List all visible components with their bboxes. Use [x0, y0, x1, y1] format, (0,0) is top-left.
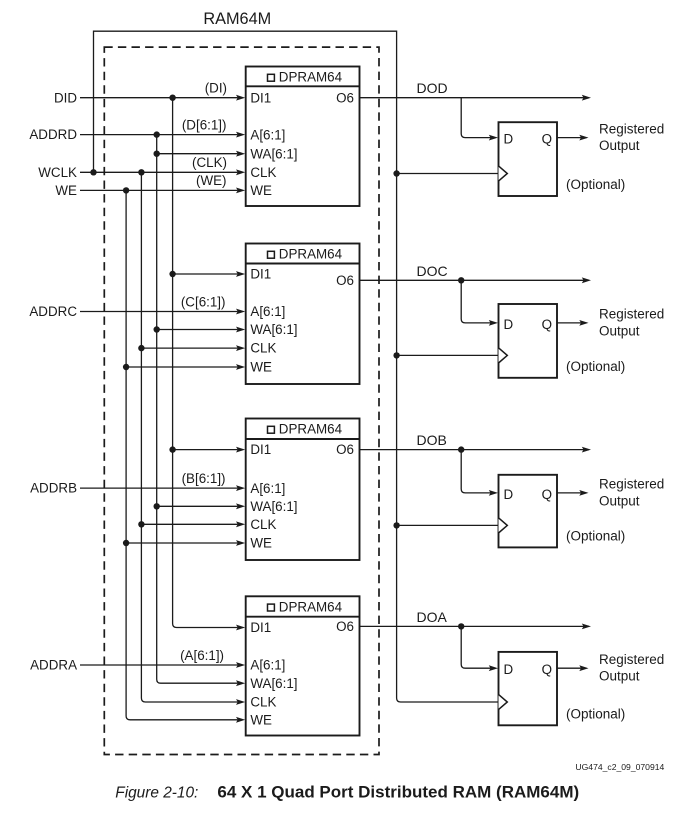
svg-text:CLK: CLK	[250, 695, 276, 710]
wire DOD output net	[360, 97, 590, 99]
wire WE branch to block3 WE	[123, 540, 129, 546]
wire FF2 Q output	[557, 322, 587, 324]
RAM64M dashed boundary box	[104, 47, 379, 754]
svg-text:DID: DID	[54, 90, 77, 105]
svg-text:DOB: DOB	[417, 432, 447, 448]
svg-text:DOD: DOD	[417, 80, 448, 96]
svg-text:UG474_c2_09_070914: UG474_c2_09_070914	[575, 762, 664, 772]
svg-text:A[6:1]: A[6:1]	[250, 304, 285, 319]
svg-text:Q: Q	[542, 662, 552, 677]
wire WA branch to block1 WA[6:1]	[154, 151, 160, 157]
DPRAM64 block U3	[246, 419, 360, 561]
wire branch down to FF2 D input	[461, 280, 490, 323]
svg-text:DPRAM64: DPRAM64	[279, 70, 343, 85]
svg-text:Registered: Registered	[599, 307, 664, 322]
svg-text:WE: WE	[250, 360, 272, 375]
wire ADDRC	[80, 311, 238, 313]
svg-text:DI1: DI1	[250, 90, 271, 105]
svg-text:WE: WE	[250, 183, 272, 198]
svg-text:(C[6:1]): (C[6:1])	[181, 294, 226, 309]
wire FF1 Q output	[557, 137, 587, 139]
junction WCLK vertical to FF2 clock	[393, 352, 399, 358]
wire WCLK distribution (up, across top, down right side)	[94, 31, 499, 702]
svg-text:(Optional): (Optional)	[566, 528, 625, 543]
svg-text:WCLK: WCLK	[38, 165, 77, 180]
wire DID	[80, 97, 238, 99]
svg-text:DI1: DI1	[250, 442, 271, 457]
svg-text:Registered: Registered	[599, 652, 664, 667]
DPRAM64 block U1	[246, 67, 360, 207]
svg-text:(CLK): (CLK)	[192, 155, 227, 170]
svg-text:D: D	[504, 487, 514, 502]
wire ADDRB	[80, 487, 238, 489]
svg-text:O6: O6	[336, 273, 354, 288]
svg-text:ADDRB: ADDRB	[30, 481, 77, 496]
svg-text:WA[6:1]: WA[6:1]	[250, 322, 297, 337]
svg-text:A[6:1]: A[6:1]	[250, 128, 285, 143]
wire DI branch to block2 DI1	[169, 271, 175, 277]
svg-text:D: D	[504, 132, 514, 147]
junction DID to DI trunk	[169, 95, 175, 101]
svg-text:Q: Q	[542, 487, 552, 502]
wire DOB output net	[360, 449, 590, 451]
svg-text:DPRAM64: DPRAM64	[279, 422, 343, 437]
wire WA trunk	[157, 135, 238, 684]
svg-text:WA[6:1]: WA[6:1]	[250, 499, 297, 514]
svg-text:Figure 2-10:: Figure 2-10:	[115, 785, 198, 802]
wire ADDRD	[80, 134, 238, 136]
svg-text:ADDRA: ADDRA	[30, 658, 77, 673]
svg-text:Registered: Registered	[599, 121, 664, 136]
junction WCLK vertical to FF3 clock	[393, 522, 399, 528]
svg-text:CLK: CLK	[250, 517, 276, 532]
svg-text:Q: Q	[542, 317, 552, 332]
svg-text:WE: WE	[250, 536, 272, 551]
svg-text:(Optional): (Optional)	[566, 706, 625, 721]
svg-text:WA[6:1]: WA[6:1]	[250, 146, 297, 161]
svg-text:CLK: CLK	[250, 165, 276, 180]
svg-text:(B[6:1]): (B[6:1])	[182, 471, 226, 486]
wire DI branch to block3 DI1	[169, 446, 175, 452]
svg-text:D: D	[504, 662, 514, 677]
wire branch down to FF3 D input	[461, 450, 490, 493]
svg-text:Output: Output	[599, 493, 640, 508]
DPRAM64 block U4	[246, 596, 360, 735]
svg-text:DI1: DI1	[250, 620, 271, 635]
junction WCLK to top distribution wire	[90, 169, 96, 175]
junction DOB to register branch	[458, 446, 464, 452]
wire branch down to FF1 D input	[461, 98, 490, 138]
flip-flop FF2 (register)	[499, 304, 558, 378]
svg-text:O6: O6	[336, 619, 354, 634]
svg-text:A[6:1]: A[6:1]	[250, 481, 285, 496]
svg-text:ADDRD: ADDRD	[29, 127, 77, 142]
wire FF3 Q output	[557, 492, 587, 494]
svg-text:WE: WE	[250, 712, 272, 727]
DPRAM64 block U2	[246, 244, 360, 385]
wire CLK trunk	[141, 172, 237, 702]
svg-text:Output: Output	[599, 669, 640, 684]
junction WCLK to CLK trunk	[138, 169, 144, 175]
wire FF3 clock feed	[397, 524, 499, 526]
svg-text:(DI): (DI)	[205, 81, 227, 96]
svg-text:WA[6:1]: WA[6:1]	[250, 676, 297, 691]
wire FF2 clock feed	[397, 354, 499, 356]
svg-text:DOA: DOA	[417, 609, 448, 625]
junction DOC to register branch	[458, 277, 464, 283]
svg-text:DI1: DI1	[250, 267, 271, 282]
svg-text:(A[6:1]): (A[6:1])	[180, 648, 224, 663]
svg-text:DPRAM64: DPRAM64	[279, 600, 343, 615]
wire branch down to FF4 D input	[461, 626, 490, 668]
wire DOC output net	[360, 279, 590, 281]
flip-flop FF4 (register)	[499, 652, 558, 725]
svg-text:O6: O6	[336, 442, 354, 457]
junction WCLK vertical to FF1 clock	[393, 170, 399, 176]
svg-text:CLK: CLK	[250, 341, 276, 356]
wire DI trunk	[173, 98, 238, 628]
wire FF4 Q output	[557, 667, 587, 669]
wire ADDRA	[80, 664, 238, 666]
junction WE to WE trunk	[123, 187, 129, 193]
svg-text:O6: O6	[336, 90, 354, 105]
svg-text:(WE): (WE)	[196, 173, 227, 188]
wire WE trunk	[126, 190, 237, 719]
wire CLK branch to block2 CLK	[138, 345, 144, 351]
svg-text:WE: WE	[55, 183, 77, 198]
wire CLK branch to block3 CLK	[138, 521, 144, 527]
svg-text:(Optional): (Optional)	[566, 359, 625, 374]
wire WA branch to block2 WA[6:1]	[154, 326, 160, 332]
svg-text:DOC: DOC	[417, 263, 448, 279]
svg-text:64 X 1 Quad Port Distributed R: 64 X 1 Quad Port Distributed RAM (RAM64M…	[217, 783, 579, 802]
wire DOA output net	[360, 625, 590, 627]
flip-flop FF1 (register)	[499, 122, 558, 196]
svg-text:Registered: Registered	[599, 477, 664, 492]
svg-text:D: D	[504, 317, 514, 332]
wire WA branch to block3 WA[6:1]	[154, 503, 160, 509]
junction DOA to register branch	[458, 623, 464, 629]
svg-text:Output: Output	[599, 138, 640, 153]
svg-text:RAM64M: RAM64M	[203, 10, 271, 28]
svg-text:Output: Output	[599, 323, 640, 338]
svg-text:(D[6:1]): (D[6:1])	[182, 117, 227, 132]
svg-text:ADDRC: ADDRC	[29, 304, 77, 319]
svg-text:DPRAM64: DPRAM64	[279, 247, 343, 262]
svg-text:Q: Q	[542, 132, 552, 147]
wire WCLK	[80, 171, 238, 173]
junction ADDRD to WA trunk	[154, 131, 160, 137]
wire WE branch to block2 WE	[123, 364, 129, 370]
wire WE	[80, 189, 238, 191]
svg-text:A[6:1]: A[6:1]	[250, 658, 285, 673]
svg-text:(Optional): (Optional)	[566, 177, 625, 192]
flip-flop FF3 (register)	[499, 475, 558, 548]
wire FF1 clock feed	[397, 173, 499, 175]
